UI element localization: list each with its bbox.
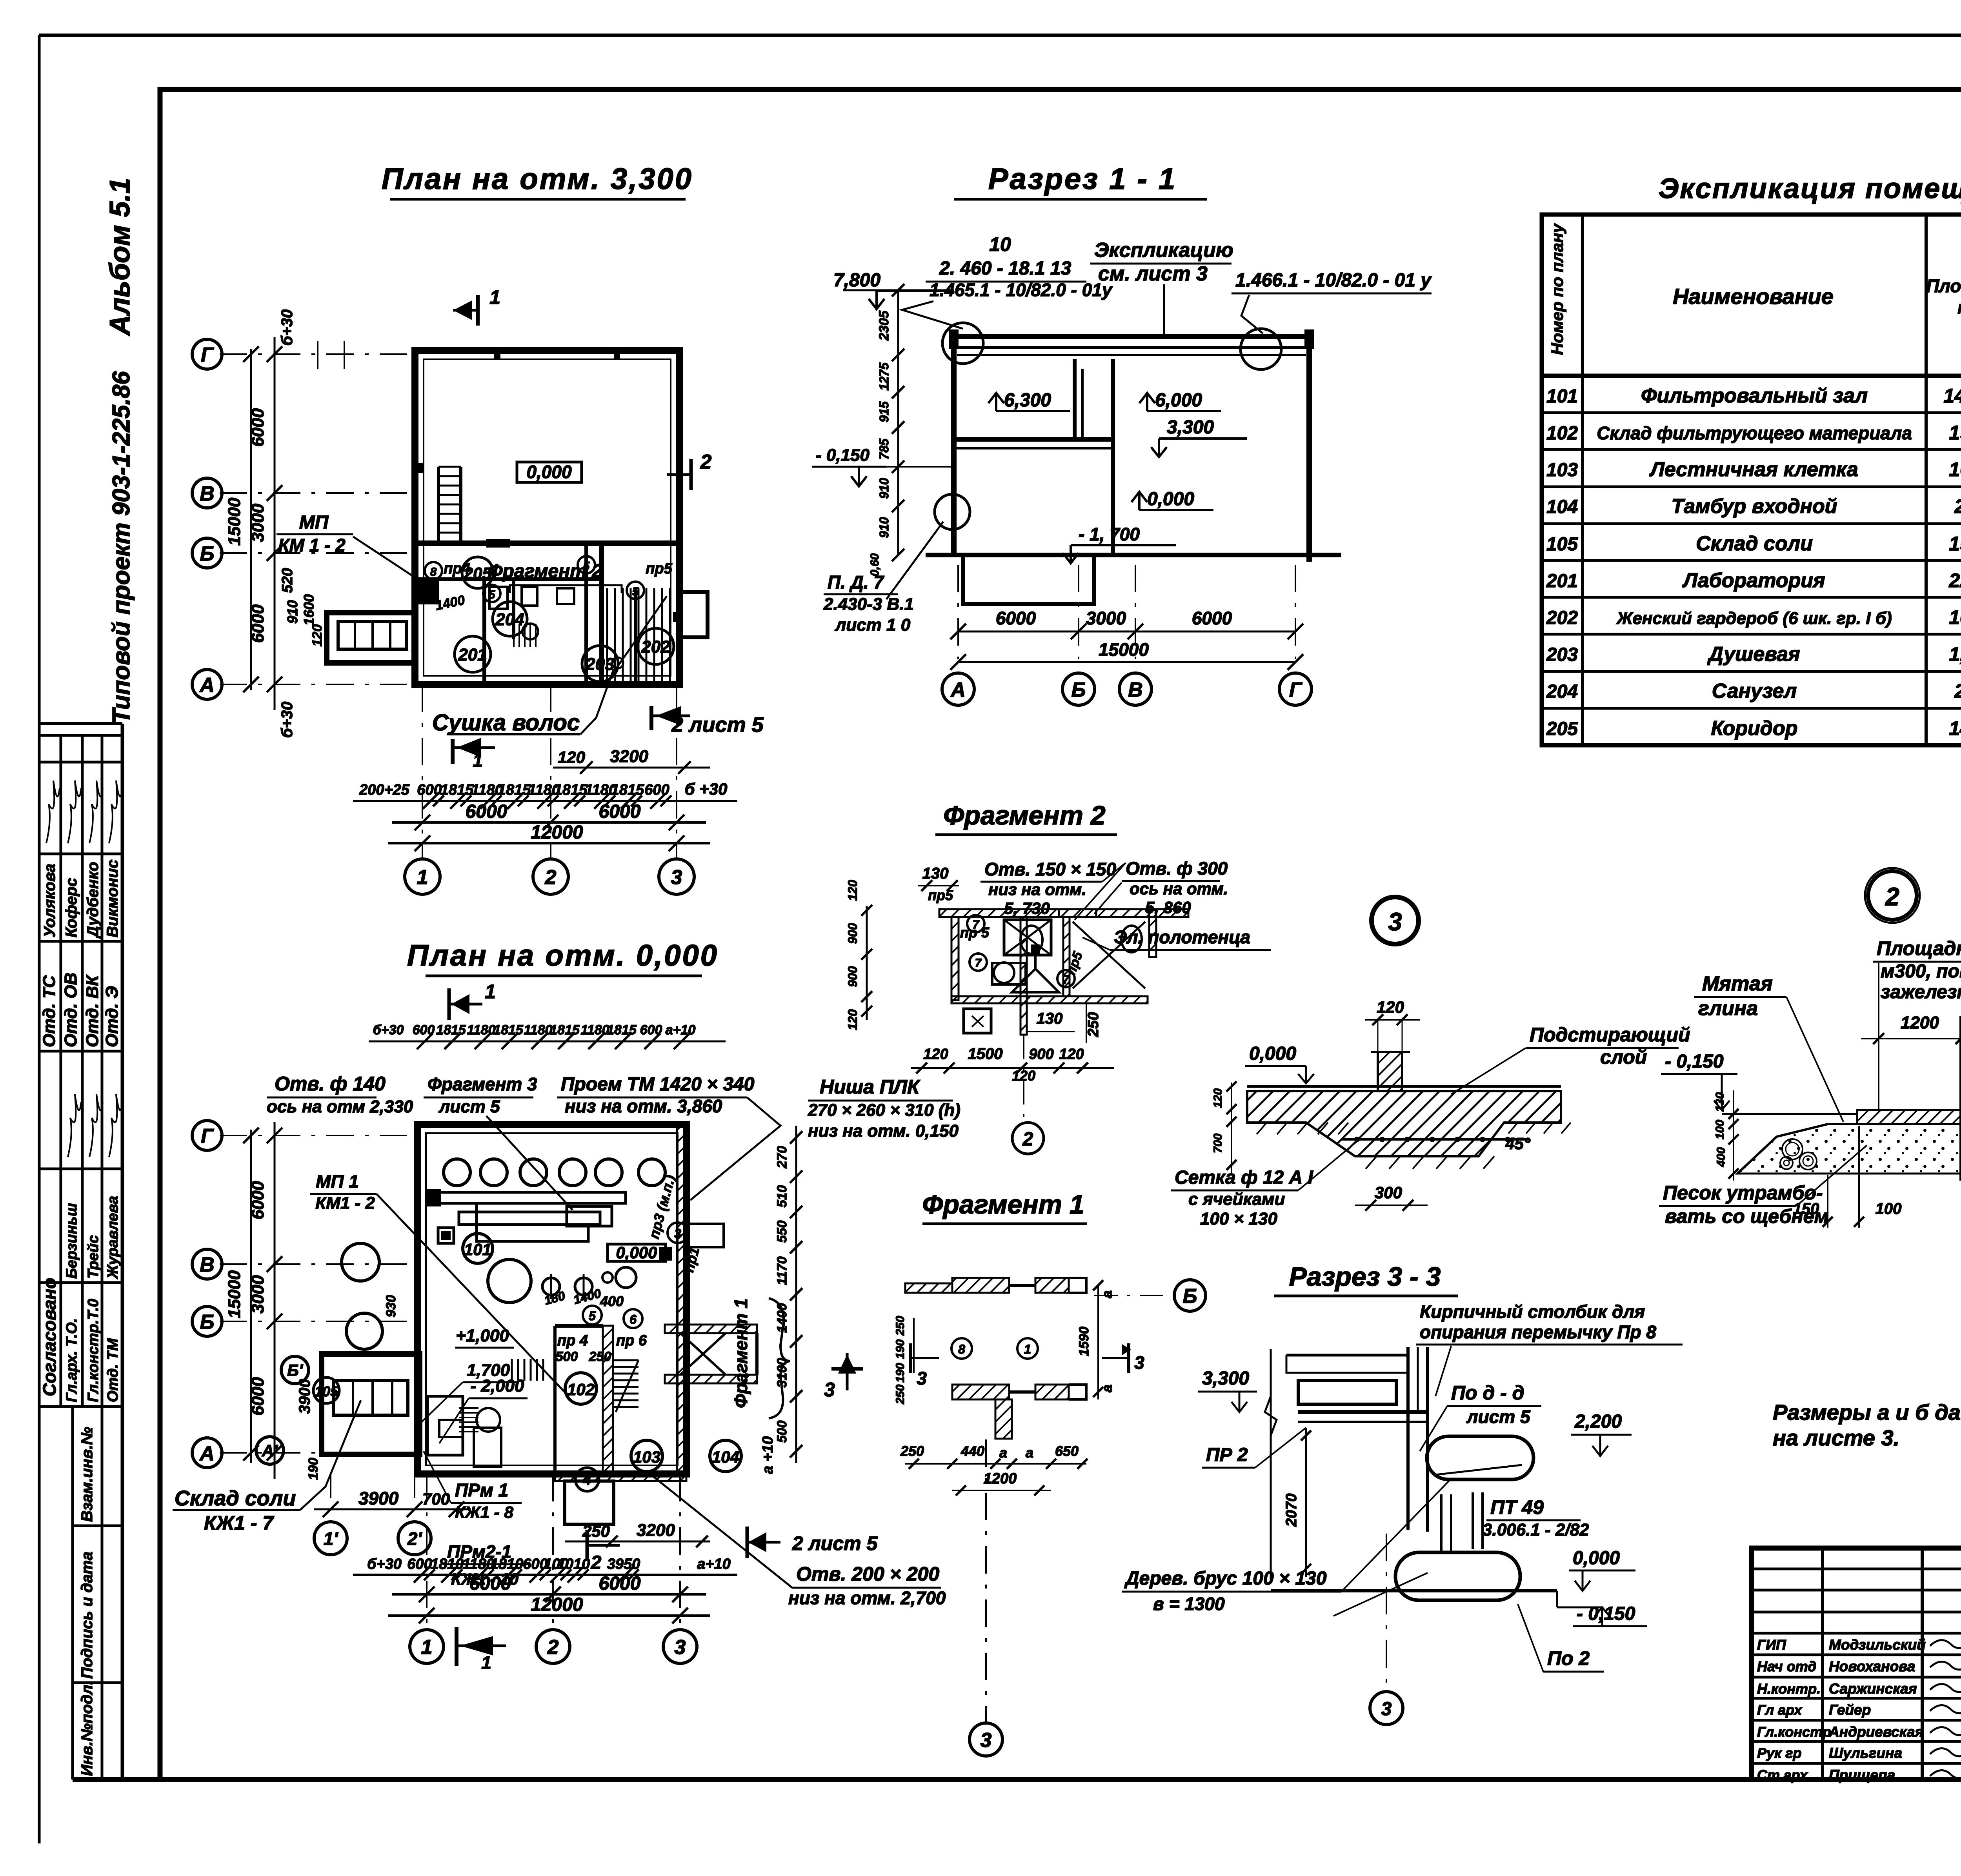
svg-text:202: 202 bbox=[641, 637, 670, 657]
uzel3 ground ticks bbox=[1257, 1123, 1267, 1134]
svg-text:22,1: 22,1 bbox=[1948, 570, 1961, 591]
svg-text:КЖ1 - 8: КЖ1 - 8 bbox=[455, 1503, 513, 1521]
svg-text:250: 250 bbox=[900, 1443, 924, 1459]
svg-text:Рук гр: Рук гр bbox=[1757, 1745, 1801, 1761]
svg-text:2: 2 bbox=[1885, 883, 1899, 911]
svg-text:Саржинская: Саржинская bbox=[1829, 1681, 1917, 1697]
svg-text:3: 3 bbox=[1134, 1352, 1144, 1373]
svg-text:15000: 15000 bbox=[225, 1270, 244, 1318]
svg-text:1810: 1810 bbox=[490, 1556, 524, 1572]
svg-text:915: 915 bbox=[877, 401, 891, 422]
plan0 circled 3 small bbox=[668, 1223, 688, 1243]
svg-text:Сушка волос: Сушка волос bbox=[432, 710, 580, 735]
razrez11 mezz floor bbox=[954, 437, 1113, 442]
frag1 door leaves bbox=[1009, 1284, 1035, 1287]
svg-text:1180: 1180 bbox=[524, 1023, 552, 1037]
svg-text:0,000: 0,000 bbox=[1573, 1548, 1620, 1568]
frag2 circled 7c bbox=[1057, 970, 1075, 987]
svg-text:ПРм 1: ПРм 1 bbox=[455, 1480, 508, 1500]
outer border left bbox=[38, 35, 41, 1843]
svg-text:100: 100 bbox=[1714, 1120, 1726, 1139]
svg-text:440: 440 bbox=[960, 1443, 984, 1459]
title block left cols bbox=[1821, 1548, 1824, 1780]
svg-text:1275: 1275 bbox=[877, 362, 891, 390]
svg-text:5, 730: 5, 730 bbox=[1004, 899, 1050, 917]
svg-text:500: 500 bbox=[556, 1349, 578, 1364]
svg-text:8: 8 bbox=[430, 566, 437, 579]
svg-text:103: 103 bbox=[1546, 460, 1578, 480]
svg-text:3: 3 bbox=[675, 1636, 686, 1659]
svg-text:А: А bbox=[950, 679, 966, 701]
plan3300 annex bbox=[327, 613, 415, 663]
svg-text:203: 203 bbox=[585, 655, 614, 674]
svg-text:10,0: 10,0 bbox=[1949, 606, 1961, 628]
svg-text:1600: 1600 bbox=[301, 594, 317, 626]
svg-text:Гл.констр.Т.0: Гл.констр.Т.0 bbox=[85, 1299, 102, 1402]
svg-text:В: В bbox=[200, 482, 215, 505]
axis circle 3 plan0 bbox=[663, 1630, 697, 1663]
frag2 top fixtures bbox=[1004, 920, 1051, 955]
svg-text:б+30: б+30 bbox=[278, 702, 296, 738]
plan0 left dim chain bbox=[274, 1122, 276, 1479]
svg-text:а: а bbox=[1026, 1445, 1033, 1461]
svg-text:а+10: а+10 bbox=[666, 1023, 696, 1037]
razrez11 small col bbox=[1081, 369, 1084, 439]
svg-text:- 2,000: - 2,000 bbox=[471, 1376, 525, 1396]
svg-text:Подпись и дата: Подпись и дата bbox=[78, 1552, 96, 1679]
plan0 equip rect 2 bbox=[567, 1206, 612, 1226]
razrez11 inner wall 2 bbox=[1111, 359, 1115, 555]
svg-text:600: 600 bbox=[644, 782, 669, 798]
svg-text:2.430-3 В.1: 2.430-3 В.1 bbox=[823, 595, 914, 614]
plan0 right dim chain bbox=[795, 1126, 797, 1463]
svg-text:Площадь: Площадь bbox=[1926, 276, 1961, 296]
plan0 small circle a bbox=[602, 1272, 613, 1283]
svg-text:Трейс: Трейс bbox=[85, 1235, 102, 1279]
svg-text:250: 250 bbox=[1085, 1012, 1102, 1037]
svg-text:3200: 3200 bbox=[637, 1521, 675, 1540]
svg-text:190: 190 bbox=[306, 1458, 321, 1480]
svg-text:Женский гардероб (6 шк. гр. I: Женский гардероб (6 шк. гр. I б) bbox=[1616, 609, 1892, 628]
title block outer bbox=[1752, 1548, 1961, 1780]
svg-text:Песок утрамбо-: Песок утрамбо- bbox=[1663, 1182, 1823, 1204]
svg-text:1815: 1815 bbox=[498, 782, 531, 798]
uzel3 mesh dots bbox=[1355, 1137, 1359, 1141]
plan0 annex inner bbox=[333, 1381, 408, 1415]
plan3300 mid wall bbox=[415, 540, 679, 546]
svg-text:130: 130 bbox=[1037, 1010, 1063, 1027]
svg-text:6,000: 6,000 bbox=[1155, 390, 1202, 411]
svg-text:Г: Г bbox=[1289, 679, 1302, 701]
svg-text:Фрагмент 1: Фрагмент 1 bbox=[922, 1190, 1084, 1219]
svg-text:785: 785 bbox=[877, 438, 891, 460]
plan3300 partition 1 bbox=[482, 579, 486, 684]
frag2 wc pans bbox=[1021, 926, 1042, 954]
svg-text:14,7: 14,7 bbox=[1949, 717, 1961, 739]
uzel3 column cap bbox=[1371, 1051, 1410, 1053]
svg-text:250: 250 bbox=[894, 1385, 907, 1405]
svg-text:3000: 3000 bbox=[248, 1275, 267, 1314]
plan0 stairs right bbox=[613, 1359, 639, 1361]
svg-text:6000: 6000 bbox=[469, 1573, 511, 1594]
svg-text:190: 190 bbox=[894, 1339, 907, 1359]
frag1 dim 1200 bbox=[952, 1490, 1051, 1491]
svg-text:Отд. ТС: Отд. ТС bbox=[40, 975, 59, 1047]
razrez11 left dim chain bbox=[897, 290, 899, 555]
plan0 0000 box bbox=[608, 1244, 666, 1261]
svg-text:ГИП: ГИП bbox=[1757, 1637, 1786, 1653]
plan0 room102 bbox=[565, 1373, 597, 1404]
svg-text:1200: 1200 bbox=[984, 1470, 1017, 1487]
frag2 left dim chain bbox=[866, 906, 868, 1020]
plan0 flag2 bottom bbox=[586, 1530, 589, 1561]
svg-text:Экспликацию: Экспликацию bbox=[1094, 239, 1233, 262]
plan0 wc fixtures bbox=[439, 1420, 463, 1437]
svg-text:- 0,150: - 0,150 bbox=[816, 446, 870, 465]
svg-text:вать со щебнем: вать со щебнем bbox=[1665, 1205, 1829, 1227]
svg-text:Фрагмент 3: Фрагмент 3 bbox=[427, 1074, 537, 1094]
frag2 circled 7b bbox=[970, 953, 987, 971]
svg-text:101: 101 bbox=[464, 1240, 491, 1259]
plan3300 small circled 5c bbox=[578, 556, 595, 573]
svg-text:Отд. ОВ: Отд. ОВ bbox=[61, 973, 80, 1047]
svg-text:3: 3 bbox=[671, 866, 682, 889]
razrez11 right wall bbox=[1306, 337, 1312, 562]
svg-text:1: 1 bbox=[421, 1636, 433, 1659]
svg-text:2 лист 5: 2 лист 5 bbox=[792, 1532, 878, 1554]
svg-text:Дудбенко: Дудбенко bbox=[84, 862, 102, 939]
svg-text:6000: 6000 bbox=[1192, 608, 1232, 628]
plan3300 stair center line bbox=[612, 596, 667, 675]
plan0 axis dash lines horiz bbox=[220, 1135, 417, 1136]
svg-text:Отв. 150 × 150: Отв. 150 × 150 bbox=[984, 859, 1116, 879]
uzel2 ground line left bbox=[1722, 1113, 1857, 1115]
svg-text:Экспликация помещений: Экспликация помещений bbox=[1659, 173, 1961, 204]
svg-text:6000: 6000 bbox=[466, 801, 508, 822]
svg-text:102: 102 bbox=[567, 1380, 595, 1399]
plan0 stairs left bbox=[511, 1359, 513, 1381]
svg-text:Коридор: Коридор bbox=[1711, 717, 1798, 740]
plan0 fixtures bottom left bbox=[427, 1396, 463, 1455]
svg-text:5: 5 bbox=[632, 585, 639, 598]
svg-text:203: 203 bbox=[1546, 644, 1578, 665]
svg-text:7: 7 bbox=[975, 957, 982, 970]
frag1 right dims bbox=[1097, 1285, 1099, 1399]
razrez33 posts bbox=[1440, 1494, 1443, 1551]
expl table header bottom bbox=[1542, 374, 1961, 378]
svg-text:1': 1' bbox=[324, 1528, 339, 1549]
svg-text:Мятая: Мятая bbox=[1702, 972, 1773, 995]
svg-text:16,9: 16,9 bbox=[1949, 459, 1961, 480]
svg-text:По д - д: По д - д bbox=[1451, 1382, 1524, 1404]
svg-text:270 × 260 × 310 (h): 270 × 260 × 310 (h) bbox=[808, 1101, 960, 1120]
svg-text:2. 460 - 18.1 13: 2. 460 - 18.1 13 bbox=[939, 258, 1071, 279]
svg-text:6: 6 bbox=[629, 1312, 637, 1326]
axis circle 3 plan3300 bbox=[659, 859, 694, 894]
svg-text:201: 201 bbox=[458, 645, 487, 664]
svg-text:600: 600 bbox=[417, 782, 442, 798]
axis circle B razrez bbox=[1062, 673, 1095, 705]
svg-text:Фильтровальный зал: Фильтровальный зал bbox=[1641, 384, 1868, 407]
razrez33 ground line bbox=[1271, 1589, 1557, 1592]
svg-text:1815: 1815 bbox=[554, 782, 588, 798]
uzel3 mesh line bbox=[1341, 1138, 1530, 1141]
svg-text:Гл арх: Гл арх bbox=[1757, 1702, 1803, 1718]
svg-text:200+25: 200+25 bbox=[359, 782, 410, 798]
plan0 flag 3 right bbox=[831, 1367, 863, 1371]
svg-text:Прищепа: Прищепа bbox=[1829, 1767, 1895, 1783]
razrez33 left dim line bbox=[1270, 1349, 1272, 1581]
plan0 porch right small rects bbox=[659, 1247, 672, 1261]
frag1 bottom wall bbox=[952, 1385, 1009, 1399]
svg-text:1815: 1815 bbox=[440, 782, 474, 798]
razrez11 pit bbox=[963, 555, 1094, 604]
svg-text:слой: слой bbox=[1600, 1046, 1647, 1068]
svg-text:б+30: б+30 bbox=[278, 309, 296, 346]
svg-text:6000: 6000 bbox=[248, 604, 267, 643]
uzel2 circle bbox=[1868, 871, 1917, 920]
plan0 tambour stubs bbox=[555, 1472, 586, 1481]
svg-text:2,7: 2,7 bbox=[1954, 680, 1961, 702]
plan0 small square bbox=[438, 1228, 454, 1243]
svg-text:400: 400 bbox=[600, 1293, 624, 1309]
svg-text:120: 120 bbox=[1377, 998, 1404, 1016]
plan0 top flag 1 bbox=[448, 988, 451, 1020]
svg-text:Склад соли: Склад соли bbox=[1696, 532, 1813, 555]
plan0 outer wall bbox=[417, 1125, 686, 1474]
svg-text:101: 101 bbox=[1546, 386, 1578, 407]
svg-text:а +10: а +10 bbox=[760, 1436, 776, 1474]
svg-text:В: В bbox=[200, 1254, 215, 1276]
plan0 circled4 bbox=[575, 1468, 599, 1491]
svg-text:Б': Б' bbox=[287, 1361, 304, 1379]
svg-text:Кирпичный столбик для: Кирпичный столбик для bbox=[1420, 1301, 1645, 1322]
svg-text:Б: Б bbox=[1183, 1285, 1197, 1308]
axis circle A razrez bbox=[942, 673, 974, 705]
axis circle A plan0 bbox=[192, 1438, 222, 1468]
svg-text:КЖ1 - 7: КЖ1 - 7 bbox=[204, 1512, 274, 1534]
axis circle G razrez bbox=[1279, 673, 1312, 705]
svg-text:А: А bbox=[199, 674, 215, 697]
svg-text:1.465.1 - 10/82.0 - 01у: 1.465.1 - 10/82.0 - 01у bbox=[930, 280, 1113, 300]
frag1 circled 1 bbox=[1017, 1338, 1038, 1359]
svg-text:1170: 1170 bbox=[775, 1256, 789, 1285]
plan3300 outer wall bbox=[415, 351, 679, 684]
frag2 center wall bbox=[1021, 917, 1027, 1035]
svg-text:2070: 2070 bbox=[1283, 1494, 1300, 1527]
plan3300 stairs treads bbox=[606, 588, 608, 682]
plan0 small circle b bbox=[616, 1267, 636, 1288]
svg-text:П. Д. 7: П. Д. 7 bbox=[828, 572, 884, 592]
svg-text:1815: 1815 bbox=[436, 1023, 466, 1037]
plan3300 partition 3 bbox=[584, 543, 588, 684]
svg-text:зажелезнить: зажелезнить bbox=[1881, 982, 1961, 1003]
plan0 L-shaped duct bbox=[477, 1203, 588, 1241]
plan3300 hatch marks top wall bbox=[494, 351, 500, 360]
svg-text:Андриевская: Андриевская bbox=[1828, 1724, 1924, 1740]
svg-text:3900: 3900 bbox=[358, 1488, 399, 1508]
svg-text:45°: 45° bbox=[1505, 1134, 1531, 1153]
svg-text:пр5: пр5 bbox=[646, 560, 672, 577]
svg-text:а: а bbox=[999, 1445, 1007, 1461]
frag1 top wall bbox=[905, 1283, 952, 1293]
svg-text:700: 700 bbox=[422, 1490, 450, 1508]
svg-text:19,2: 19,2 bbox=[1949, 422, 1961, 444]
axis circle V razrez bbox=[1119, 673, 1151, 705]
svg-text:б+30: б+30 bbox=[373, 1023, 404, 1037]
svg-text:900: 900 bbox=[846, 923, 860, 944]
plan3300 room 201 bbox=[455, 636, 491, 672]
svg-text:м: м bbox=[1957, 297, 1961, 318]
svg-text:0,000: 0,000 bbox=[1249, 1043, 1296, 1064]
axis circle A plan3300 bbox=[192, 670, 222, 699]
svg-text:10: 10 bbox=[989, 233, 1011, 255]
svg-text:6000: 6000 bbox=[599, 801, 641, 822]
stamp strip grid bbox=[39, 734, 122, 737]
uzel2 slope line bbox=[1737, 1124, 1828, 1174]
svg-text:Нач отд: Нач отд bbox=[1757, 1658, 1816, 1674]
svg-text:6000: 6000 bbox=[248, 1181, 267, 1219]
svg-text:КМ 1 - 2: КМ 1 - 2 bbox=[278, 535, 346, 555]
frag1 left dims bbox=[913, 1318, 915, 1373]
svg-text:3.006.1 - 2/82: 3.006.1 - 2/82 bbox=[1483, 1520, 1589, 1539]
svg-text:Взам.инв.№: Взам.инв.№ bbox=[78, 1427, 96, 1522]
svg-text:б +30: б +30 bbox=[685, 780, 728, 798]
svg-text:Г: Г bbox=[201, 1125, 214, 1148]
svg-text:15000: 15000 bbox=[1099, 639, 1149, 660]
razrez11 leader circle left bbox=[942, 323, 983, 364]
axis circle B1 plan0 bbox=[281, 1356, 309, 1384]
svg-text:Санузел: Санузел bbox=[1712, 680, 1797, 702]
svg-text:5: 5 bbox=[589, 1309, 596, 1323]
svg-text:Согласовано: Согласовано bbox=[39, 1278, 60, 1396]
frag2 bottom dim row bbox=[911, 1067, 1114, 1069]
svg-text:Уолякова: Уолякова bbox=[41, 864, 58, 937]
stamp strip lower section bbox=[71, 1407, 74, 1780]
svg-text:3900: 3900 bbox=[296, 1379, 313, 1414]
plan3300 stair wall bbox=[599, 543, 604, 684]
svg-text:Н.контр.: Н.контр. bbox=[1757, 1681, 1821, 1697]
svg-text:190: 190 bbox=[894, 1363, 907, 1383]
plan0 room103 bbox=[631, 1440, 662, 1472]
frag2 left wall bbox=[951, 917, 959, 1000]
plan0 flag2 list5 bottom bbox=[746, 1527, 749, 1558]
plan3300 room 205 bbox=[462, 557, 493, 588]
svg-text:105: 105 bbox=[1546, 534, 1578, 555]
svg-text:опирания перемычку Пр 8: опирания перемычку Пр 8 bbox=[1420, 1322, 1656, 1342]
svg-text:Б: Б bbox=[1071, 679, 1086, 701]
plan3300 0,000 box bbox=[517, 462, 582, 482]
svg-text:Дерев. брус 100 × 130: Дерев. брус 100 × 130 bbox=[1124, 1568, 1327, 1589]
svg-text:15000: 15000 bbox=[225, 497, 244, 546]
axis circle A1 plan0 bbox=[256, 1437, 284, 1464]
frag1 axis B bbox=[1094, 1295, 1173, 1296]
svg-text:7: 7 bbox=[1063, 973, 1070, 986]
svg-text:130: 130 bbox=[922, 865, 949, 882]
stamp rotated signatures row bbox=[46, 781, 60, 843]
plan3300 annex cells bbox=[338, 622, 407, 649]
svg-text:Коферс: Коферс bbox=[63, 878, 80, 937]
svg-text:650: 650 bbox=[1055, 1443, 1079, 1459]
svg-text:а+10: а+10 bbox=[697, 1556, 731, 1572]
plan0 bottom wall hatched bbox=[555, 1472, 686, 1481]
svg-text:Новоханова: Новоханова bbox=[1829, 1658, 1915, 1674]
title block left rows bbox=[1752, 1568, 1961, 1570]
svg-text:104: 104 bbox=[712, 1448, 739, 1466]
frag2 door swing X right bbox=[1073, 922, 1145, 988]
svg-text:3: 3 bbox=[980, 1729, 992, 1752]
svg-text:201: 201 bbox=[1546, 571, 1578, 591]
plan3300 axis dash lines bbox=[220, 353, 415, 355]
svg-text:Берзиньш: Берзиньш bbox=[64, 1203, 80, 1279]
svg-text:Лестничная клетка: Лестничная клетка bbox=[1649, 458, 1858, 481]
svg-text:Отв. ф 300: Отв. ф 300 bbox=[1126, 858, 1228, 879]
svg-text:120: 120 bbox=[846, 880, 860, 901]
svg-text:1815: 1815 bbox=[550, 1023, 580, 1037]
svg-text:141,1: 141,1 bbox=[1943, 385, 1961, 407]
svg-text:2: 2 bbox=[700, 451, 712, 473]
plan0 big circles left bbox=[342, 1243, 379, 1281]
svg-text:2': 2' bbox=[407, 1528, 423, 1549]
razrez33 wall column bbox=[1406, 1347, 1410, 1530]
uzel3 left dims bbox=[1231, 1083, 1232, 1173]
svg-text:120: 120 bbox=[846, 1009, 860, 1030]
razrez11 axis dash lines bbox=[957, 565, 959, 659]
svg-text:По 2: По 2 bbox=[1547, 1647, 1590, 1669]
plan3300 door gaps bbox=[486, 539, 510, 548]
plan0 inner wall line bbox=[426, 1133, 678, 1465]
svg-text:510: 510 bbox=[775, 1185, 789, 1208]
frag2 sink below wall bbox=[964, 1009, 991, 1033]
svg-text:12000: 12000 bbox=[531, 822, 583, 843]
razrez33 dim 2070 bbox=[1305, 1428, 1307, 1577]
svg-text:- 1, 700: - 1, 700 bbox=[1079, 524, 1140, 544]
plan0 annex bbox=[322, 1354, 420, 1454]
svg-text:ось на отм.: ось на отм. bbox=[1130, 879, 1228, 898]
svg-text:пр 5: пр 5 bbox=[960, 924, 990, 941]
svg-text:- 0,150: - 0,150 bbox=[1665, 1051, 1724, 1072]
svg-text:МП: МП bbox=[299, 512, 329, 533]
svg-text:400: 400 bbox=[1715, 1147, 1728, 1167]
svg-text:1.466.1 - 10/82.0 - 01 у: 1.466.1 - 10/82.0 - 01 у bbox=[1235, 270, 1432, 291]
svg-text:Б: Б bbox=[200, 542, 215, 565]
svg-text:Номер по плану: Номер по плану bbox=[1548, 223, 1566, 355]
svg-text:Тамбур входной: Тамбур входной bbox=[1671, 495, 1837, 518]
svg-text:104: 104 bbox=[1546, 497, 1578, 517]
axis circle G plan0 bbox=[192, 1121, 222, 1150]
svg-text:пр4: пр4 bbox=[444, 560, 470, 577]
svg-text:0,000: 0,000 bbox=[526, 462, 572, 482]
svg-text:930: 930 bbox=[384, 1295, 398, 1317]
svg-text:Лаборатория: Лаборатория bbox=[1682, 569, 1825, 592]
plan3300 bottom dims row3 bbox=[388, 842, 710, 844]
axis circle 1 plan0 bbox=[410, 1630, 444, 1663]
plan0 room101 bbox=[463, 1234, 493, 1263]
svg-text:120: 120 bbox=[310, 624, 325, 647]
razrez11 bottom dim line bbox=[958, 631, 1295, 633]
plan3300 room 202 bbox=[638, 628, 674, 664]
svg-text:Отв. ф 140: Отв. ф 140 bbox=[275, 1073, 386, 1095]
svg-text:1815: 1815 bbox=[493, 1023, 524, 1037]
svg-text:Гейер: Гейер bbox=[1829, 1702, 1871, 1718]
uzel3 slab hatch bbox=[1247, 1091, 1561, 1156]
uzel3 column stub bbox=[1378, 1052, 1402, 1091]
svg-text:270: 270 bbox=[775, 1146, 789, 1169]
stamp strip top bbox=[39, 722, 122, 725]
svg-text:Б: Б bbox=[200, 1311, 215, 1334]
sheet bottom line bbox=[73, 1777, 1961, 1782]
plan3300 small circled 5b bbox=[627, 582, 644, 599]
